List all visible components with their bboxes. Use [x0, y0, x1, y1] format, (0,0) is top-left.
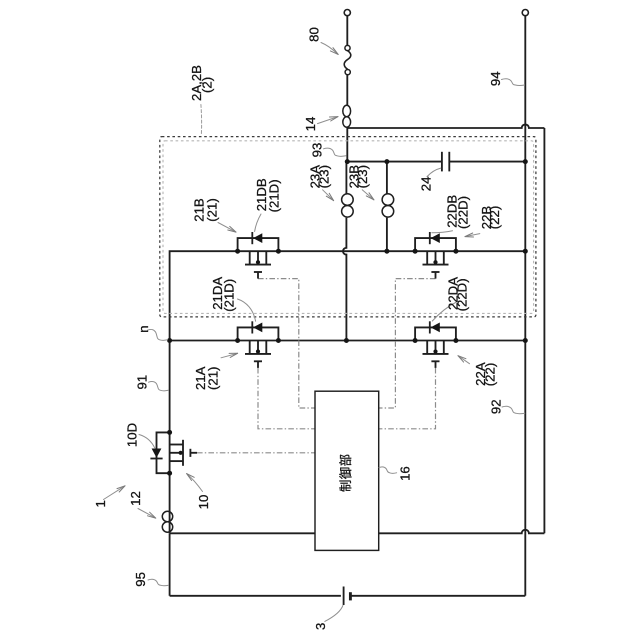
svg-text:94: 94: [488, 71, 503, 86]
svg-text:14: 14: [303, 117, 318, 132]
svg-text:3: 3: [313, 623, 328, 630]
svg-text:10: 10: [196, 495, 211, 510]
svg-text:1: 1: [93, 500, 108, 507]
svg-text:(21): (21): [204, 198, 219, 221]
svg-text:92: 92: [488, 399, 503, 414]
svg-text:24: 24: [418, 177, 433, 192]
svg-text:n: n: [136, 325, 151, 332]
svg-text:91: 91: [134, 375, 149, 390]
svg-text:(22D): (22D): [456, 196, 471, 229]
svg-text:(21): (21): [205, 367, 220, 390]
svg-text:80: 80: [307, 27, 322, 42]
svg-text:(2): (2): [199, 77, 214, 93]
svg-text:(21D): (21D): [266, 179, 281, 212]
svg-text:(22): (22): [483, 363, 498, 386]
svg-text:12: 12: [128, 491, 143, 506]
svg-text:10D: 10D: [125, 423, 140, 447]
svg-text:95: 95: [133, 572, 148, 587]
svg-text:(23): (23): [316, 165, 331, 188]
svg-text:16: 16: [397, 466, 412, 481]
svg-text:(22D): (22D): [455, 278, 470, 311]
svg-text:(21D): (21D): [222, 279, 237, 312]
svg-text:(22): (22): [487, 206, 502, 229]
svg-text:(23): (23): [355, 165, 370, 188]
svg-text:93: 93: [310, 143, 325, 158]
svg-text:制御部: 制御部: [338, 454, 353, 492]
